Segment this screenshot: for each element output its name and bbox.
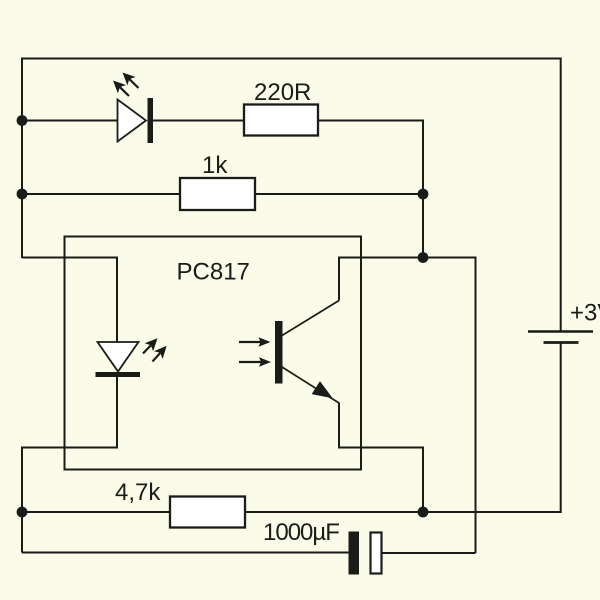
svg-text:1000µF: 1000µF [263, 519, 339, 546]
node at branch and collector [418, 252, 429, 263]
phototransistor emitter arrowhead [313, 382, 332, 398]
svg-text:PC817: PC817 [177, 259, 250, 286]
wire emitter run [339, 403, 423, 513]
battery BT1 positive plate [528, 330, 593, 333]
photo arrow 2 [239, 357, 271, 367]
wire 4,7k right [245, 511, 423, 513]
node at left rail and 1k [17, 189, 28, 200]
optocoupler U1 PC817 body [65, 237, 362, 470]
wire 1k right [255, 193, 423, 195]
svg-text:220R: 220R [254, 79, 311, 106]
phototransistor collector diagonal [282, 301, 339, 336]
battery BT1 negative plate [544, 341, 579, 344]
wire opto anode [22, 258, 117, 343]
capacitor C1 positive plate [371, 533, 382, 574]
wire collector run [339, 258, 423, 301]
wire LED D1 cathode to 220R [153, 120, 244, 122]
wire LED D1 anode [22, 120, 117, 122]
opto LED triangle [98, 342, 139, 372]
opto LED cathode bar [96, 372, 141, 377]
wire 4,7k left [22, 511, 170, 513]
phototransistor Q1 base bar [275, 321, 283, 384]
resistor 1k body [180, 178, 255, 210]
svg-text:4,7k: 4,7k [115, 479, 161, 506]
node at left rail and D1 [17, 115, 28, 126]
LED D1 triangle [118, 100, 147, 142]
wire 1k left [22, 193, 180, 195]
photo arrow 1 [239, 337, 271, 347]
node at left rail and 4,7k [17, 507, 28, 518]
wire bottom to capacitor [22, 552, 349, 554]
capacitor C1 negative plate [349, 532, 360, 575]
opto LED emission arrow 1 [143, 338, 158, 353]
LED D1 emission arrow 1 [123, 73, 139, 89]
svg-text:1k: 1k [202, 152, 228, 179]
resistor 220R body [244, 105, 318, 136]
phototransistor emitter diagonal [282, 367, 339, 403]
wire 220R to vertical branch [318, 121, 423, 258]
svg-text:+3V: +3V [570, 300, 600, 327]
LED D1 emission arrow 2 [113, 81, 129, 97]
wire battery negative to bottom node [423, 344, 561, 513]
wire capacitor to feed [381, 552, 476, 554]
LED D1 cathode bar [148, 98, 154, 143]
wire collector node to cap feed [423, 258, 476, 554]
wire top rail [22, 59, 561, 331]
resistor 4,7k body [170, 497, 245, 528]
wire opto cathode [22, 376, 117, 553]
node at branch and 4,7k [418, 507, 429, 518]
opto LED emission arrow 2 [153, 346, 167, 362]
node at branch and 1k [418, 189, 429, 200]
